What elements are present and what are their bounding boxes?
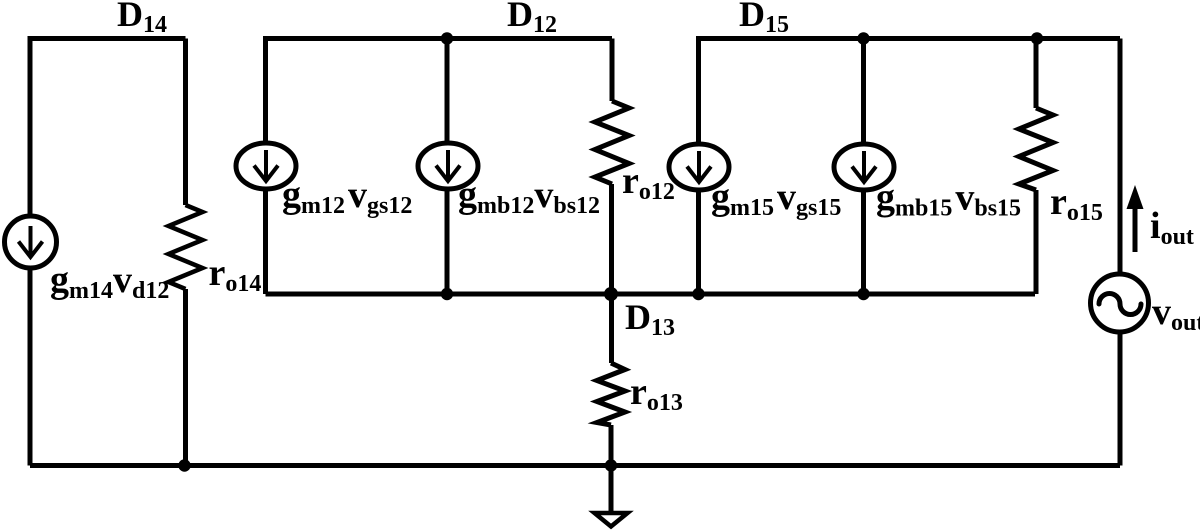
svg-text:ro15: ro15 bbox=[1050, 181, 1103, 226]
node D13 mid rail bbox=[266, 292, 1036, 297]
resistor r_o13 bbox=[597, 363, 625, 425]
resistor r_o14 bbox=[169, 205, 203, 289]
wire g_mb12 branch bbox=[445, 39, 450, 295]
node dot bottom rail / r_o14 bbox=[178, 459, 190, 471]
wire bottom rail bbox=[30, 463, 1120, 468]
svg-text:D15: D15 bbox=[739, 0, 789, 38]
wire r_o15 branch bottom bbox=[1034, 190, 1039, 294]
wire right output branch bbox=[1118, 39, 1123, 466]
current source g_mb12 v_bs12 bbox=[418, 143, 478, 189]
node dot mid rail / g_mb12 bbox=[441, 288, 453, 300]
wire g_mb15 branch bbox=[861, 39, 866, 295]
svg-text:gmb12vbs12: gmb12vbs12 bbox=[458, 174, 600, 219]
svg-text:D14: D14 bbox=[117, 0, 167, 38]
svg-text:D12: D12 bbox=[507, 0, 557, 38]
node dot rail D15 / g_mb15 bbox=[857, 32, 869, 44]
wire r_o12 branch top bbox=[610, 39, 615, 102]
node D13 dot bbox=[604, 287, 618, 301]
svg-text:ro14: ro14 bbox=[209, 252, 262, 297]
wire r_o14 branch top bbox=[183, 39, 188, 206]
wire r_o14 branch bottom bbox=[183, 289, 188, 466]
current source g_m14 v_d12 bbox=[5, 216, 57, 268]
svg-text:gm12vgs12: gm12vgs12 bbox=[282, 174, 412, 219]
arrow i_out bbox=[1127, 185, 1144, 252]
source v_out bbox=[1091, 274, 1149, 332]
wire ground stub bbox=[609, 466, 614, 514]
current source g_m15 v_gs15 bbox=[669, 144, 729, 190]
resistor r_o12 bbox=[595, 101, 629, 184]
current source g_mb15 v_bs15 bbox=[834, 144, 894, 190]
svg-text:gmb15vbs15: gmb15vbs15 bbox=[876, 177, 1021, 222]
wire D13 column bottom bbox=[609, 425, 614, 466]
wire r_o12 to D13 column bbox=[609, 184, 614, 363]
ground bbox=[595, 513, 628, 527]
node dot bottom rail / ground bbox=[605, 459, 617, 471]
node dot mid rail / g_mb15 bbox=[857, 288, 869, 300]
svg-text:iout: iout bbox=[1150, 205, 1194, 250]
node dot rail D12 / g_mb12 bbox=[441, 32, 453, 44]
resistor r_o15 bbox=[1019, 108, 1053, 190]
svg-text:gm15vgs15: gm15vgs15 bbox=[711, 176, 841, 221]
wire D12 section left branch bbox=[266, 39, 613, 295]
current source g_m12 v_gs12 bbox=[236, 143, 296, 189]
svg-text:gm14vd12: gm14vd12 bbox=[50, 259, 169, 304]
wire r_o15 branch top bbox=[1034, 39, 1039, 109]
wire left branch outer loop bbox=[30, 39, 186, 466]
wire D15 section left branch bbox=[699, 39, 1121, 295]
node dot mid rail / g_m15 bbox=[692, 288, 704, 300]
svg-text:ro13: ro13 bbox=[630, 371, 683, 416]
node dot rail D15 / r_o15 bbox=[1031, 32, 1043, 44]
svg-text:vout: vout bbox=[1152, 291, 1200, 336]
svg-text:D13: D13 bbox=[625, 297, 675, 341]
